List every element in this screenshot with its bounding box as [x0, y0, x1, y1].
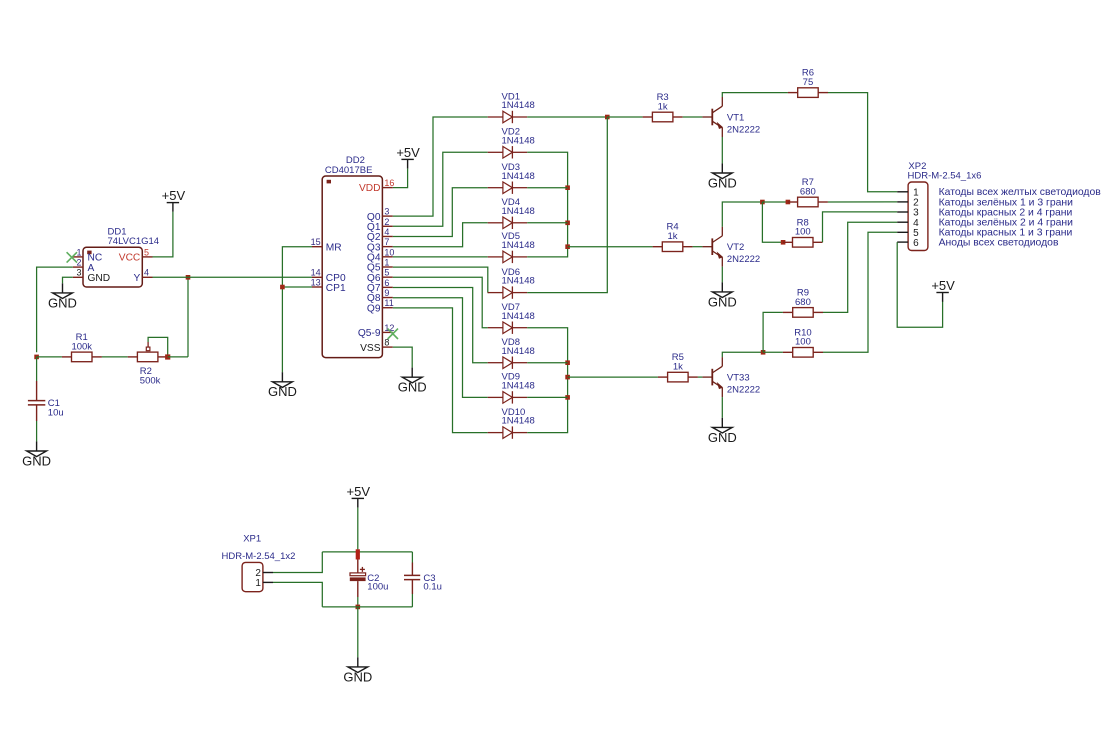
wire Q4 to VD5	[393, 256, 488, 258]
svg-text:680: 680	[795, 297, 811, 308]
svg-text:GND: GND	[48, 295, 77, 310]
wire +5V to DD1 VCC	[153, 212, 173, 257]
svg-text:MR: MR	[326, 242, 342, 253]
svg-text:1N4148: 1N4148	[502, 346, 535, 357]
wire bus VD7-VD10	[527, 328, 567, 433]
svg-text:GND: GND	[88, 273, 111, 284]
svg-text:2: 2	[76, 258, 81, 268]
wire Q6 to VD7	[393, 277, 488, 327]
node junction VT33 collector/R9 branch	[761, 350, 766, 355]
wire VD9 cathode to bus	[527, 396, 567, 398]
wire junction to R10	[763, 351, 783, 353]
svg-text:75: 75	[803, 77, 814, 88]
XP1 pin 2	[255, 568, 273, 579]
diode VD4 1N4148	[488, 197, 535, 229]
wire bus to R4	[568, 246, 653, 248]
DD2 pin 11 Q9	[367, 298, 394, 314]
wire Q1 to VD2	[393, 152, 488, 226]
wire R9 to XP2 pin4	[823, 222, 897, 312]
wire R2 wiper tie	[148, 337, 168, 354]
svg-text:1k: 1k	[673, 362, 683, 373]
DD2 pin 3 Q0	[367, 207, 393, 223]
wire bus VD2-VD5	[527, 152, 567, 257]
wire DD2 VSS to ground	[393, 347, 412, 368]
svg-text:14: 14	[311, 268, 321, 278]
capacitor C2 100u (polarized)	[350, 560, 389, 598]
wire ground rail bottom	[322, 606, 412, 608]
svg-text:15: 15	[311, 237, 321, 247]
svg-text:GND: GND	[268, 384, 297, 399]
wire XP1 pin1 to ground rail	[273, 582, 322, 607]
svg-text:0.1u: 0.1u	[423, 582, 442, 593]
connector XP1 HDR-M-2.54_1x2	[222, 534, 296, 592]
svg-text:Q9: Q9	[367, 303, 381, 314]
svg-text:Аноды всех светодиодов: Аноды всех светодиодов	[939, 238, 1059, 249]
svg-text:9: 9	[384, 288, 389, 298]
svg-text:4: 4	[384, 227, 389, 237]
svg-text:680: 680	[800, 186, 816, 197]
wire R4 to VT2 base	[693, 246, 703, 248]
wire R10 to XP2 pin5	[823, 232, 897, 352]
svg-text:100k: 100k	[71, 341, 92, 352]
resistor R5 1k	[658, 352, 698, 382]
wire Q2 to VD3	[393, 188, 488, 237]
svg-text:VCC: VCC	[119, 253, 141, 264]
svg-text:VT1: VT1	[727, 112, 744, 123]
component DD1 74LVC1G14	[83, 226, 159, 287]
wire Q0 to VD1	[393, 117, 488, 216]
svg-text:VSS: VSS	[360, 343, 381, 354]
svg-text:1: 1	[255, 578, 261, 589]
DD2 pin 1 Q5	[367, 258, 393, 274]
resistor R3 1k	[643, 92, 683, 122]
svg-text:VT33: VT33	[727, 373, 750, 384]
svg-text:3: 3	[76, 268, 81, 278]
svg-text:CD4017BE: CD4017BE	[325, 165, 373, 176]
svg-text:1N4148: 1N4148	[502, 276, 535, 287]
wire R9 branch up	[763, 312, 783, 352]
connector XP2 HDR-M-2.54_1x6	[908, 161, 982, 251]
ground below C1	[22, 441, 51, 468]
svg-text:+5V: +5V	[347, 484, 371, 499]
potentiometer R2 500k	[128, 342, 168, 386]
wire C2 bottom	[357, 597, 359, 605]
XP2 pin 2	[897, 198, 919, 209]
ground below VT1	[708, 163, 737, 190]
DD1 pin 3 GND	[73, 268, 110, 284]
svg-text:HDR-M-2.54_1x6: HDR-M-2.54_1x6	[908, 171, 982, 182]
node junction C2 top (polarity bar)	[356, 549, 360, 559]
svg-text:74LVC1G14: 74LVC1G14	[108, 236, 160, 247]
svg-text:1: 1	[384, 258, 389, 268]
transistor VT1 2N2222	[702, 97, 760, 137]
ground below DD2 VSS	[398, 368, 427, 395]
DD2 pin 13 CP1	[311, 277, 346, 294]
no-connect X on DD1 pin 1	[67, 252, 77, 262]
svg-text:+5V: +5V	[931, 278, 955, 293]
ground below C2 rail	[343, 657, 372, 684]
wire VT33 collector to R10 row	[722, 352, 763, 357]
DD2 pin 14 CP0	[311, 268, 346, 284]
no-connect X on DD2 pin 12	[388, 329, 398, 339]
svg-text:100: 100	[795, 337, 811, 348]
power +5V (DD2 supply)	[396, 145, 420, 169]
capacitor C3 0.1u	[404, 552, 442, 607]
svg-text:2N2222: 2N2222	[727, 385, 760, 396]
svg-text:10: 10	[384, 247, 394, 257]
diode VD3 1N4148	[488, 162, 535, 194]
svg-text:CP1: CP1	[326, 283, 346, 294]
svg-text:1: 1	[76, 247, 81, 257]
wire R8 to XP2 pin3	[823, 212, 898, 242]
power +5V (input)	[347, 484, 371, 508]
node junction VT2 collector/R8 branch	[760, 200, 765, 205]
DD1 pin 2 A	[73, 258, 95, 274]
diode VD8 1N4148	[488, 337, 535, 369]
svg-text:1N4148: 1N4148	[502, 135, 535, 146]
wire R3 to VT1 base	[683, 116, 703, 118]
svg-text:GND: GND	[708, 294, 737, 309]
wire C1 to ground	[36, 421, 38, 441]
svg-text:1N4148: 1N4148	[502, 171, 535, 182]
wire DD1 pin2 feedback	[37, 267, 73, 352]
ground below MR/CP1 bus	[268, 372, 297, 399]
wire C1 top	[36, 357, 38, 381]
resistor R8 100	[783, 217, 822, 247]
component DD2 CD4017BE	[322, 155, 382, 358]
wire ground rail to GND	[357, 607, 359, 657]
svg-text:100u: 100u	[367, 582, 388, 593]
DD2 pin 5 Q6	[367, 268, 393, 284]
wire junction to R7	[762, 201, 788, 203]
svg-text:100: 100	[795, 227, 811, 238]
diode VD10 1N4148	[488, 407, 535, 439]
svg-text:XP1: XP1	[243, 534, 261, 545]
XP2 pin 5	[897, 228, 919, 239]
svg-text:5: 5	[384, 268, 389, 278]
svg-text:GND: GND	[708, 430, 737, 445]
svg-text:1N4148: 1N4148	[502, 381, 535, 392]
node junction R4 tap on bus	[565, 244, 570, 249]
node junction at R7 lead	[786, 200, 791, 205]
wire VT2 collector to R7 row	[722, 202, 762, 227]
wire VD1 cathode to node B	[527, 116, 607, 118]
wire node A vertical	[187, 277, 189, 357]
svg-text:1N4148: 1N4148	[502, 206, 535, 217]
wire VT1 emitter to ground	[721, 137, 723, 163]
node junction R2 wiper/right terminal	[165, 354, 170, 359]
wire XP2 pin6 to +5V	[897, 242, 942, 327]
wire R6 to XP2 pin1	[828, 93, 897, 192]
transistor VT2 2N2222	[702, 227, 760, 267]
svg-text:11: 11	[384, 298, 393, 308]
wire CP1 to bus	[282, 286, 312, 288]
svg-text:GND: GND	[343, 669, 372, 684]
diode VD9 1N4148	[488, 372, 535, 404]
DD2 pin 8 VSS	[360, 338, 393, 354]
svg-text:2N2222: 2N2222	[727, 254, 760, 265]
wire VD4 cathode to bus	[527, 222, 567, 224]
svg-text:3: 3	[384, 207, 389, 217]
DD1 pin 4 Y output	[134, 268, 153, 284]
node junction R1/C1	[34, 355, 39, 360]
XP1 pin 1	[255, 578, 273, 589]
wire Q9 to VD10	[393, 308, 488, 433]
resistor R10 100	[783, 327, 823, 357]
svg-text:13: 13	[311, 277, 321, 287]
wire R1 to R2	[102, 356, 128, 358]
DD2 pin 7 Q3	[367, 237, 393, 253]
svg-text:VT2: VT2	[727, 242, 744, 253]
DD2 pin 12 Q5-9 (unconnected)	[358, 323, 395, 339]
resistor R4 1k	[653, 222, 693, 252]
svg-text:1N4148: 1N4148	[502, 311, 535, 322]
resistor R7 680	[788, 177, 828, 207]
DD2 pin 16 VDD	[359, 178, 394, 194]
svg-text:GND: GND	[22, 453, 51, 468]
svg-text:1N4148: 1N4148	[502, 240, 535, 251]
node junction DD1 Y output	[186, 275, 191, 280]
wire VD3 cathode to bus	[527, 187, 567, 189]
power +5V (DD1 supply)	[162, 188, 186, 212]
svg-text:DD2: DD2	[346, 155, 365, 166]
svg-text:1N4148: 1N4148	[502, 416, 535, 427]
diode VD6 1N4148	[488, 267, 535, 299]
wire bus VD1-VD6	[527, 117, 607, 293]
DD1 pin 1 NC	[73, 247, 102, 263]
svg-text:2: 2	[384, 217, 389, 227]
wire VT1 collector to R6 row	[722, 93, 788, 97]
svg-text:Q5-9: Q5-9	[358, 328, 381, 339]
wire Q3 to VD4	[393, 223, 488, 247]
diode VD2 1N4148	[488, 127, 535, 159]
DD2 pin 6 Q7	[367, 278, 393, 294]
DD2 pin 15 MR	[311, 237, 342, 253]
DD2 pin 4 Q2	[367, 227, 393, 243]
wire junction to R1	[37, 356, 62, 358]
diode VD5 1N4148	[488, 231, 535, 263]
svg-text:Y: Y	[134, 273, 141, 284]
diode VD7 1N4148	[488, 302, 535, 334]
node junction CP1/MR ground bus	[280, 285, 285, 290]
svg-text:GND: GND	[708, 175, 737, 190]
DD2 pin 9 Q8	[367, 288, 393, 304]
wire bus to R5	[568, 376, 658, 378]
wire R5 to VT33 base	[698, 376, 703, 378]
svg-text:16: 16	[384, 178, 394, 188]
svg-text:1N4148: 1N4148	[502, 100, 535, 111]
wire R8 branch down	[762, 202, 783, 242]
node junction VD4 on bus	[565, 221, 570, 226]
wire node B to R3	[607, 116, 642, 118]
svg-text:6: 6	[913, 238, 919, 249]
node junction VD9 on bus	[565, 395, 570, 400]
svg-text:500k: 500k	[140, 375, 161, 386]
node junction VD3 on bus	[565, 185, 570, 190]
node junction VD1/VD6/R3	[605, 115, 610, 120]
wire +5V input down	[357, 508, 359, 550]
ground below VT2	[708, 282, 737, 309]
resistor R9 680	[783, 287, 823, 317]
svg-text:VDD: VDD	[359, 183, 381, 194]
svg-text:7: 7	[384, 237, 389, 247]
svg-text:5: 5	[144, 247, 149, 257]
power +5V (LED anodes)	[931, 278, 955, 302]
node junction C2 bottom	[356, 605, 361, 610]
svg-text:+5V: +5V	[396, 145, 420, 160]
wire R7 to XP2 pin2	[828, 201, 897, 203]
svg-text:2N2222: 2N2222	[727, 125, 760, 136]
wire MR to CP1/ground bus	[282, 247, 312, 373]
wire VT2 emitter to ground	[721, 267, 723, 283]
wire Q5 to VD6	[393, 267, 488, 293]
DD2 pin 2 Q1	[367, 217, 393, 233]
XP2 pin 1	[897, 188, 919, 199]
transistor VT33 2N2222	[702, 357, 760, 397]
svg-text:1k: 1k	[658, 101, 668, 112]
wire Q8 to VD9	[393, 298, 488, 398]
DD2 pin 10 Q4	[367, 247, 395, 263]
wire DD1 pin3 to ground	[63, 277, 73, 283]
XP2 pin 6	[897, 238, 919, 249]
svg-text:10u: 10u	[48, 408, 64, 419]
wire Q7 to VD8	[393, 288, 488, 363]
node junction VD8 on bus	[565, 360, 570, 365]
wire VT33 emitter to ground	[721, 397, 723, 418]
wire VD8 cathode to bus	[527, 362, 567, 364]
svg-text:4: 4	[144, 268, 149, 278]
wire XP1 pin2 to +5V rail	[273, 552, 322, 573]
wire R2 to node A	[168, 356, 188, 358]
capacitor C1 10u	[28, 381, 64, 421]
ground below DD1 pin3	[48, 283, 77, 310]
diode VD1 1N4148	[488, 91, 535, 123]
node junction at R8 lead	[781, 240, 786, 245]
XP2 pin 4	[897, 218, 919, 229]
XP2 pin 3	[897, 208, 919, 219]
resistor R1 100k	[62, 332, 102, 362]
DD1 pin 5 VCC	[119, 247, 153, 263]
wire +5V rail top	[322, 551, 412, 553]
svg-text:1k: 1k	[668, 231, 678, 242]
node junction R5 tap on bus	[565, 375, 570, 380]
svg-text:8: 8	[384, 338, 389, 348]
ground below VT33	[708, 418, 737, 445]
wire DD1 Y to DD2 CP0	[153, 276, 313, 278]
resistor R6 75	[788, 68, 828, 98]
svg-text:GND: GND	[398, 380, 427, 395]
svg-text:6: 6	[384, 278, 389, 288]
svg-text:+5V: +5V	[162, 188, 186, 203]
svg-text:HDR-M-2.54_1x2: HDR-M-2.54_1x2	[222, 551, 296, 562]
wire +5V to DD2 VDD	[393, 169, 408, 188]
